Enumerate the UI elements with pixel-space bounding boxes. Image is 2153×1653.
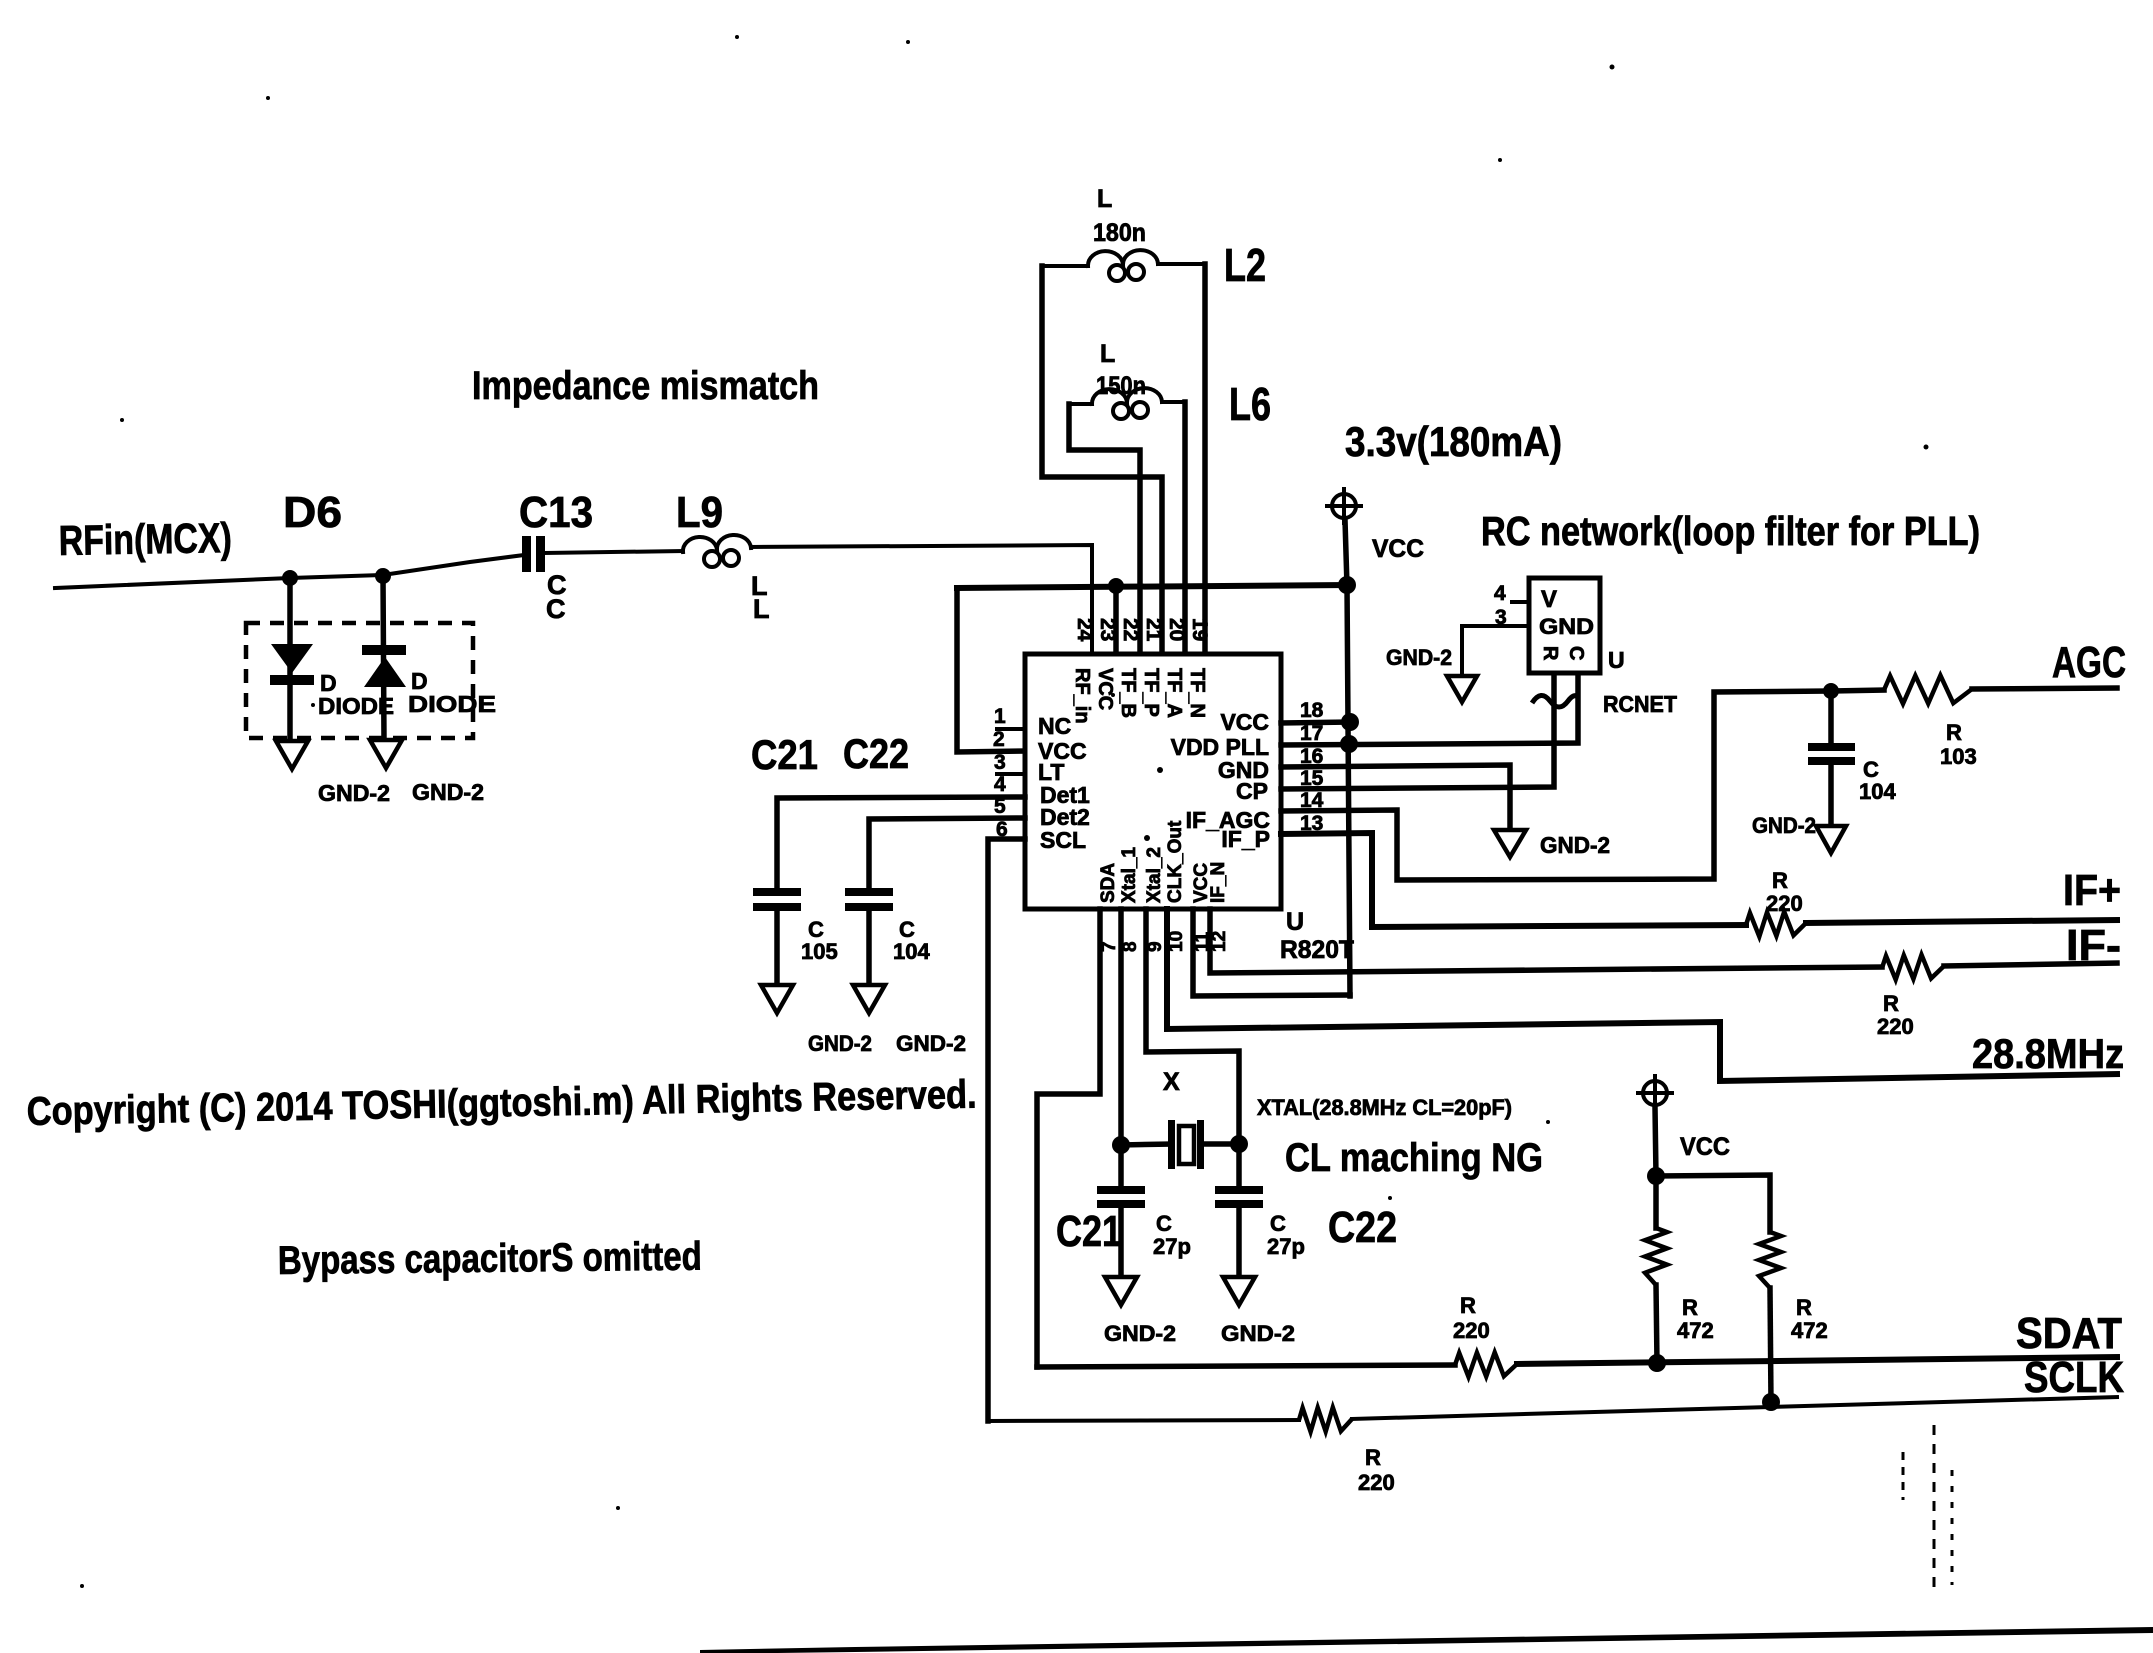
svg-text:C: C	[1270, 1211, 1286, 1236]
svg-text:22: 22	[1119, 618, 1142, 641]
wire RF input line	[55, 555, 524, 588]
label R 220 (IF-)	[1877, 991, 1914, 1039]
pin number 2 (RCNET, rotated squiggle)	[1532, 695, 1578, 707]
svg-text:L: L	[753, 594, 770, 624]
scan artifact marks	[1903, 1425, 1952, 1590]
svg-text:RF_in: RF_in	[1071, 668, 1093, 724]
svg-text:VCC: VCC	[1372, 535, 1424, 563]
wire pin18 stub	[1281, 722, 1350, 723]
svg-text:GND-2: GND-2	[896, 1031, 966, 1056]
crystal X symbol	[1121, 1120, 1239, 1169]
svg-text:104: 104	[1859, 779, 1896, 804]
svg-text:IF+: IF+	[2063, 866, 2121, 915]
wire pin15 CP to RCNET pin2	[1281, 673, 1554, 789]
svg-text:RCNET: RCNET	[1603, 691, 1677, 717]
inductor L9	[683, 535, 751, 567]
svg-text:IF_P: IF_P	[1221, 826, 1270, 852]
svg-text:AGC: AGC	[2052, 638, 2126, 687]
label GND-2 GND-2 under diodes	[318, 779, 484, 806]
svg-text:C: C	[1156, 1211, 1172, 1236]
node junction VCC split	[1647, 1167, 1665, 1185]
resistor R 103	[1884, 675, 1972, 703]
node junction on RF line (D6 left)	[282, 570, 298, 586]
svg-text:R: R	[1946, 720, 1962, 745]
svg-text:TF_B: TF_B	[1117, 668, 1139, 718]
pin 3 stub	[997, 772, 1025, 776]
svg-text:GND-2: GND-2	[1540, 832, 1610, 858]
svg-text:RC network(loop filter for PLL: RC network(loop filter for PLL)	[1481, 508, 1980, 554]
label C 27p (right)	[1267, 1211, 1305, 1259]
svg-text:VCC: VCC	[1094, 668, 1116, 710]
inductor L6	[1069, 388, 1185, 419]
svg-text:472: 472	[1791, 1318, 1828, 1343]
wire VCC rail	[957, 585, 1347, 588]
op-amp/IC U R820T body	[1025, 654, 1281, 909]
wire top VCC pin	[1113, 586, 1119, 656]
ground GND-2 (C22)	[1223, 1277, 1255, 1305]
wire pin11 VCC to rail	[1193, 909, 1350, 996]
capacitor C 27p (left)	[1097, 1145, 1145, 1277]
label U RCNET	[1603, 647, 1677, 717]
pin 1 stub	[997, 727, 1025, 731]
svg-text:GND-2: GND-2	[1104, 1321, 1176, 1346]
svg-text:4: 4	[994, 773, 1006, 796]
svg-text:CLK_Out: CLK_Out	[1165, 820, 1186, 903]
svg-text:1: 1	[994, 705, 1006, 728]
label R 472 (left)	[1677, 1295, 1714, 1343]
svg-text:R: R	[1539, 646, 1561, 661]
label C 27p (left)	[1153, 1211, 1191, 1259]
wire SDAT line right	[1517, 1357, 2117, 1364]
wire pin12 IF_N path	[1210, 909, 1882, 973]
svg-text:CL maching NG: CL maching NG	[1285, 1136, 1543, 1180]
svg-text:C21: C21	[751, 731, 818, 778]
wire pin4 Det1 to C105	[777, 797, 1025, 888]
svg-text:4: 4	[1494, 582, 1506, 605]
node junction crystal left	[1112, 1136, 1130, 1154]
wire IF- to edge	[1944, 963, 2117, 966]
capacitor C13	[522, 536, 567, 624]
wire pin17 VDD_PLL to RCNET	[1281, 673, 1578, 745]
svg-text:GND: GND	[1539, 614, 1594, 639]
label L 180n	[1093, 185, 1146, 247]
svg-text:IF_N: IF_N	[1208, 862, 1229, 903]
svg-text:R: R	[1365, 1445, 1381, 1470]
svg-text:C13: C13	[519, 488, 593, 537]
svg-text:Xtal_2: Xtal_2	[1144, 847, 1165, 903]
diode D (right, cathode up)	[362, 645, 406, 687]
wire VCC stem (pull-ups)	[1655, 1107, 1656, 1176]
svg-text:220: 220	[1358, 1470, 1395, 1495]
svg-text:150n: 150n	[1096, 372, 1146, 400]
power symbol VCC (pull-ups)	[1638, 1076, 1672, 1110]
label D DIODE (right)	[408, 668, 496, 717]
label R 220 (SDAT)	[1453, 1293, 1490, 1343]
node junction rail/VCC vertical	[1338, 576, 1356, 594]
svg-text:C22: C22	[843, 730, 909, 777]
ground GND-2 (diode 2)	[370, 740, 402, 768]
wire pin14 IF_AGC path	[1281, 690, 1884, 880]
label R 472 (right)	[1791, 1295, 1828, 1343]
svg-text:19: 19	[1188, 618, 1211, 641]
label U R820T	[1280, 908, 1354, 964]
pin 4 stub (RCNET)	[1512, 600, 1529, 604]
wire resistor to AGC	[1972, 688, 2117, 689]
wire diode branch 1	[287, 578, 293, 741]
wire IF+ to edge	[1806, 920, 2117, 923]
wire pin6 SCL down	[988, 839, 1025, 1421]
wire VCC to right R472	[1656, 1175, 1770, 1232]
svg-text:472: 472	[1677, 1318, 1714, 1343]
wire R472 right to SCLK	[1770, 1288, 1771, 1402]
svg-text:VCC: VCC	[1680, 1133, 1730, 1161]
wire L6 right vertical	[1182, 402, 1188, 656]
resistor R 220 (SCLK)	[1299, 1407, 1352, 1431]
svg-text:R: R	[1796, 1295, 1812, 1320]
svg-text:SDAT: SDAT	[2016, 1309, 2122, 1358]
label R 220 (SCLK)	[1358, 1445, 1395, 1495]
svg-text:U: U	[1608, 647, 1625, 673]
wire rail to pin 2 VCC	[957, 588, 1025, 752]
svg-text:C: C	[1565, 646, 1587, 660]
wire pin5 Det2 to C104	[869, 818, 1025, 888]
svg-text:R: R	[1772, 868, 1788, 893]
svg-text:GND-2: GND-2	[1221, 1321, 1295, 1346]
ground GND-2 (C21)	[1105, 1277, 1137, 1305]
svg-text:28.8MHz: 28.8MHz	[1972, 1030, 2124, 1077]
resistor R 220 (SDAT)	[1455, 1352, 1517, 1376]
svg-text:103: 103	[1940, 744, 1977, 769]
label D DIODE (left)	[318, 670, 394, 719]
resistor R 220 (IF+)	[1746, 912, 1806, 937]
svg-text:Bypass capacitorS omitted: Bypass capacitorS omitted	[278, 1235, 702, 1283]
wire L9 to IC RF_in	[751, 545, 1092, 656]
svg-text:CP: CP	[1236, 778, 1268, 804]
capacitor C 27p (right)	[1215, 1144, 1263, 1277]
node junction pin18/VCC	[1341, 713, 1359, 731]
svg-text:U: U	[1286, 908, 1304, 936]
svg-text:DIODE: DIODE	[408, 691, 496, 717]
wire pin10 CLK_Out path	[1167, 909, 2117, 1081]
node junction on RF line (D6 right)	[375, 568, 391, 584]
svg-text:XTAL(28.8MHz CL=20pF): XTAL(28.8MHz CL=20pF)	[1257, 1095, 1512, 1120]
svg-text:104: 104	[893, 939, 930, 964]
label C21 C22 (decoupling)	[751, 730, 909, 778]
svg-text:GND-2: GND-2	[318, 780, 390, 806]
wire VCC to left R472	[1653, 1176, 1659, 1228]
diode D (left, cathode down)	[270, 644, 314, 685]
wire pin8 Xtal_1 down	[1118, 909, 1124, 1145]
wire pin 3 (RCNET) to ground	[1462, 626, 1529, 676]
wire SDAT line left	[1037, 1365, 1455, 1367]
svg-text:D6: D6	[283, 488, 342, 537]
svg-text:TF_P: TF_P	[1140, 668, 1162, 717]
svg-text:L2: L2	[1224, 239, 1266, 291]
label L 150n	[1096, 340, 1146, 400]
svg-text:RFin(MCX): RFin(MCX)	[58, 514, 232, 564]
ground GND-2 (C104 Det2)	[853, 985, 885, 1013]
ground GND-2 (pin16)	[1494, 830, 1526, 857]
wire diode branch 2	[383, 576, 384, 740]
svg-text:3: 3	[994, 751, 1006, 774]
svg-text:Impedance mismatch: Impedance mismatch	[472, 364, 819, 408]
svg-text:R820T: R820T	[1280, 936, 1354, 964]
svg-text:C: C	[546, 594, 566, 624]
wire L6 loop left	[1069, 404, 1140, 656]
svg-text:SDA: SDA	[1098, 863, 1119, 903]
power symbol 3.3v	[1327, 489, 1361, 523]
wire C13 to L9	[545, 551, 683, 553]
svg-text:C22: C22	[1328, 1203, 1397, 1252]
wire L2 loop left	[1042, 266, 1162, 656]
wire VCC vertical (right of IC)	[1347, 585, 1350, 996]
svg-text:C21: C21	[1056, 1207, 1122, 1256]
svg-text:220: 220	[1766, 891, 1803, 916]
svg-text:R: R	[1682, 1295, 1698, 1320]
svg-text:R: R	[1883, 991, 1899, 1016]
svg-text:3: 3	[1495, 606, 1507, 629]
svg-text:220: 220	[1453, 1318, 1490, 1343]
svg-text:17: 17	[1300, 722, 1323, 745]
node junction rail/top VCC pin	[1108, 578, 1124, 594]
svg-text:SCL: SCL	[1040, 827, 1086, 853]
svg-text:X: X	[1163, 1068, 1180, 1096]
label R 103	[1940, 720, 1977, 769]
wire L2 right vertical	[1202, 264, 1208, 656]
scan artifact bottom rule	[700, 1627, 2153, 1653]
svg-text:L: L	[1100, 340, 1115, 368]
node junction R472/SDAT	[1648, 1354, 1666, 1372]
svg-text:TF_A: TF_A	[1163, 668, 1185, 718]
capacitor C 105	[753, 888, 838, 985]
svg-text:27p: 27p	[1267, 1234, 1305, 1259]
label R 220 (IF+)	[1766, 868, 1803, 916]
svg-text:Xtal_1: Xtal_1	[1119, 847, 1140, 903]
wire pin9 Xtal_2 jog	[1146, 909, 1239, 1144]
node junction pin17/VCC vertical	[1340, 735, 1358, 753]
node junction R472/SCLK	[1762, 1393, 1780, 1411]
label GND-2 GND-2 (under C105 C104)	[808, 1031, 966, 1056]
svg-text:27p: 27p	[1153, 1234, 1191, 1259]
svg-text:DIODE: DIODE	[318, 693, 394, 719]
svg-text:L9: L9	[676, 488, 723, 537]
svg-text:V: V	[1541, 586, 1557, 613]
svg-text:TF_N: TF_N	[1186, 668, 1208, 718]
ground GND-2 (diode 1)	[276, 741, 308, 769]
svg-text:GND-2: GND-2	[1386, 645, 1452, 670]
wire R472 left to SDAT	[1656, 1285, 1657, 1363]
wire 3.3v stem	[1345, 520, 1347, 586]
RC network U RCNET body	[1529, 578, 1600, 673]
svg-text:21: 21	[1142, 618, 1165, 642]
svg-text:23: 23	[1096, 618, 1119, 641]
svg-text:18: 18	[1300, 699, 1324, 722]
svg-text:GND-2: GND-2	[808, 1031, 872, 1056]
svg-text:L6: L6	[1229, 378, 1271, 430]
ground GND-2 (RCNET pin3)	[1447, 676, 1477, 702]
svg-text:R: R	[1460, 1293, 1476, 1318]
svg-text:3.3v(180mA): 3.3v(180mA)	[1345, 418, 1562, 465]
dashed box around D6 pair	[246, 623, 473, 738]
capacitor C 104 (AGC)	[1808, 691, 1896, 826]
svg-text:SCLK: SCLK	[2024, 1353, 2124, 1402]
ground GND-2 (C105)	[761, 985, 793, 1013]
wire pin13 IF_P path	[1281, 833, 1746, 927]
svg-text:105: 105	[801, 939, 838, 964]
resistor R 472 (right)	[1759, 1232, 1781, 1288]
wire pin7 SDA down	[1037, 909, 1100, 1367]
wire SCLK line left	[988, 1420, 1299, 1421]
node junction crystal right	[1230, 1135, 1248, 1153]
svg-text:220: 220	[1877, 1014, 1914, 1039]
wire SCLK line right	[1352, 1397, 2117, 1419]
svg-text:VCC: VCC	[1220, 709, 1269, 735]
svg-text:NC: NC	[1038, 713, 1071, 739]
svg-text:L: L	[1097, 185, 1112, 213]
node junction AGC/C104	[1823, 683, 1839, 699]
resistor R 220 (IF-)	[1882, 955, 1944, 980]
inductor L2	[1042, 250, 1205, 281]
svg-text:180n: 180n	[1093, 219, 1146, 247]
svg-text:IF-: IF-	[2066, 921, 2121, 970]
capacitor C 104 (Det2)	[845, 888, 930, 985]
svg-text:2: 2	[993, 728, 1005, 751]
resistor R 472 (left)	[1645, 1228, 1667, 1285]
svg-text:24: 24	[1073, 618, 1096, 642]
ground GND-2 (C104 AGC)	[1816, 826, 1846, 853]
wire pin16 GND to ground	[1281, 765, 1510, 830]
svg-text:GND-2: GND-2	[412, 779, 484, 805]
svg-text:20: 20	[1165, 618, 1188, 641]
svg-text:GND-2: GND-2	[1752, 813, 1816, 838]
